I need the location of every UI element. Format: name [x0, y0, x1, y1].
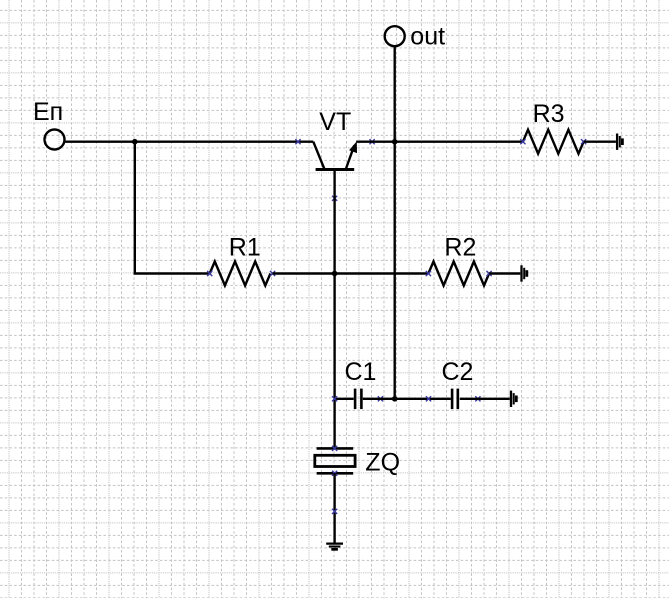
pin marker R3 right	[581, 139, 586, 144]
label R3	[533, 100, 565, 128]
wire base vertical	[333, 170, 335, 449]
wire C2 to ground	[460, 398, 510, 400]
label C1	[345, 358, 377, 386]
crystal ZQ body	[315, 455, 355, 466]
ground right of R3	[617, 134, 622, 150]
svg-text:R1: R1	[229, 233, 261, 261]
crystal ZQ top plate	[317, 447, 354, 450]
pin marker C1 left	[332, 396, 337, 401]
pin marker VT base	[332, 196, 337, 201]
label En	[33, 98, 63, 126]
label ZQ	[365, 449, 400, 477]
ground right of R2	[522, 265, 527, 281]
svg-text:out: out	[410, 22, 445, 50]
pin marker ground wire	[332, 509, 337, 514]
terminal out	[385, 26, 405, 46]
pin marker VT emitter	[370, 139, 375, 144]
ground bottom	[326, 544, 343, 550]
resistor R3	[523, 130, 584, 154]
wire R1 to R2	[273, 272, 429, 274]
label C2	[442, 358, 474, 386]
capacitor C1	[355, 389, 361, 410]
wire out vertical	[394, 46, 396, 399]
ground right of C2	[511, 391, 516, 407]
svg-text:C1: C1	[345, 358, 377, 386]
label R2	[444, 233, 476, 261]
junction dot B	[332, 271, 338, 277]
transistor VT emitter lead	[346, 145, 355, 169]
label out	[410, 22, 445, 50]
junction dot D	[392, 396, 398, 402]
wire base to C1	[335, 398, 354, 400]
pin marker R1 left	[207, 271, 212, 276]
pin marker VT collector	[295, 139, 300, 144]
transistor VT emitter arrow	[349, 141, 357, 153]
pin marker C2 right	[475, 396, 480, 401]
label VT	[319, 108, 351, 136]
pin marker R2 right	[487, 271, 492, 276]
pin marker ZQ top	[332, 446, 337, 451]
terminal En	[45, 130, 65, 150]
svg-text:R2: R2	[444, 233, 476, 261]
junction dot C	[392, 139, 398, 145]
svg-text:C2: C2	[442, 358, 474, 386]
resistor R2	[428, 262, 489, 286]
resistor R1	[210, 262, 271, 286]
wire R3 to ground	[584, 140, 616, 142]
wire to R1	[134, 272, 210, 274]
svg-text:VT: VT	[319, 108, 351, 136]
transistor VT base bar	[316, 168, 355, 171]
wire emitter to R3	[356, 140, 523, 142]
pin marker R2 left	[426, 271, 431, 276]
wire ZQ to ground	[333, 473, 335, 542]
svg-text:ZQ: ZQ	[365, 449, 400, 477]
wire vertical from node A down	[134, 142, 136, 274]
crystal ZQ bottom plate	[317, 472, 354, 475]
wire C1 to C2	[363, 398, 451, 400]
svg-text:R3: R3	[533, 100, 565, 128]
wire top from En to VT	[64, 140, 313, 142]
svg-text:Eп: Eп	[33, 98, 63, 126]
label R1	[229, 233, 261, 261]
wire R2 to ground	[489, 272, 520, 274]
pin marker R1 right	[270, 271, 275, 276]
pin marker C1 right	[378, 396, 383, 401]
capacitor C2	[452, 389, 458, 410]
pin marker C2 left	[426, 396, 431, 401]
transistor VT collector lead	[313, 142, 324, 170]
junction dot A	[132, 139, 138, 145]
pin marker ZQ bottom	[332, 471, 337, 476]
pin marker R3 left	[520, 139, 525, 144]
